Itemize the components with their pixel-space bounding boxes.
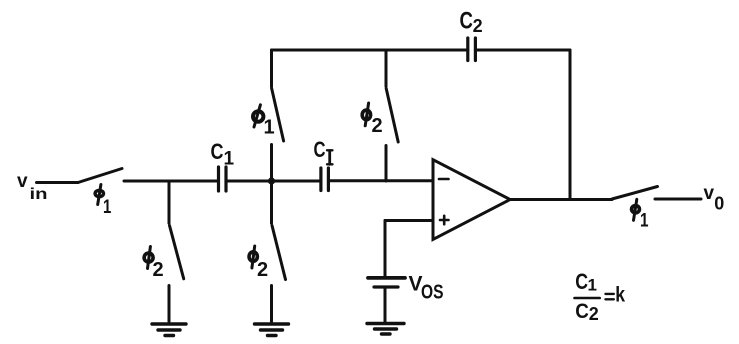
wire switch S6 to vo xyxy=(655,198,701,201)
wire switch S4 to top feedback wire xyxy=(270,50,273,87)
wire switch S5 to top feedback wire xyxy=(385,50,388,87)
node B junction dot xyxy=(268,177,275,184)
svg-text:C: C xyxy=(575,269,588,294)
formula equals sign xyxy=(606,294,614,299)
svg-text:1: 1 xyxy=(264,117,275,139)
svg-text:C: C xyxy=(460,7,473,34)
svg-text:2: 2 xyxy=(473,16,483,36)
svg-text:v: v xyxy=(704,183,715,204)
op-amp minus sign xyxy=(439,178,449,181)
svg-text:2: 2 xyxy=(589,304,599,324)
switch S5 phi2 arm xyxy=(386,88,398,142)
wire switch S2 to ground xyxy=(168,286,171,322)
switch S4 phi1 arm xyxy=(272,88,284,141)
wire op-amp output to switch S6 xyxy=(510,198,612,201)
wire node C up to switch S5 xyxy=(385,146,388,182)
voltage source VOS bottom plate xyxy=(374,285,398,288)
switch S1 phi1 arm xyxy=(78,169,122,183)
svg-text:2: 2 xyxy=(153,259,164,281)
ground G2 xyxy=(255,324,289,336)
svg-text:OS: OS xyxy=(421,282,444,304)
wire VOS to ground xyxy=(384,288,387,322)
phi2 label for S5 xyxy=(362,103,382,137)
svg-text:1: 1 xyxy=(588,276,597,295)
op-amp U1 xyxy=(433,160,510,240)
top feedback wire left of C2 xyxy=(272,49,468,52)
svg-text:in: in xyxy=(30,186,48,203)
C1 label xyxy=(211,139,235,170)
wire feedback down to output node xyxy=(569,50,572,200)
wire switch S1 to node A xyxy=(124,180,219,183)
phi2 label for S3 xyxy=(249,246,268,281)
svg-text:C: C xyxy=(575,300,589,323)
svg-text:0: 0 xyxy=(714,193,724,213)
phi1 label for S4 xyxy=(253,105,275,139)
phi2 label for S2 xyxy=(144,247,164,282)
wire C1 to CI through node B xyxy=(226,180,321,183)
node vin label xyxy=(17,171,48,203)
node vo label xyxy=(704,183,725,214)
phi1 label for S1 xyxy=(95,185,112,219)
capacitor C2 xyxy=(468,38,476,61)
formula fraction bar xyxy=(575,297,600,300)
svg-text:C: C xyxy=(314,137,326,162)
capacitor C1 xyxy=(219,167,227,191)
switch S3 phi2 arm xyxy=(272,226,286,280)
svg-text:C: C xyxy=(211,139,224,164)
svg-text:1: 1 xyxy=(640,211,649,232)
wire down to Vos source xyxy=(384,221,387,277)
svg-text:1: 1 xyxy=(224,149,235,170)
VOS label xyxy=(409,273,444,304)
svg-text:1: 1 xyxy=(103,197,112,218)
switch S2 phi2 arm xyxy=(170,226,184,279)
wire switch S3 to ground xyxy=(270,286,273,322)
op-amp plus sign xyxy=(440,216,449,224)
ground G1 xyxy=(152,324,186,336)
CI label xyxy=(314,137,333,164)
svg-text:2: 2 xyxy=(372,115,383,137)
wire non-inverting input xyxy=(385,219,433,222)
capacitor CI xyxy=(321,168,329,191)
C2 label xyxy=(460,7,483,36)
ground G3 xyxy=(367,324,404,335)
voltage source VOS top plate xyxy=(368,276,405,280)
svg-text:v: v xyxy=(17,171,28,192)
top feedback wire right of C2 xyxy=(475,49,570,52)
svg-text:2: 2 xyxy=(257,259,268,281)
wire node A down to switch S2 xyxy=(168,181,171,223)
wire vin to switch S1 xyxy=(37,181,79,184)
wire node B down to switch S3 xyxy=(270,181,273,223)
switch S6 phi1 arm xyxy=(612,187,658,200)
wire node B up to switch S4 xyxy=(270,145,273,182)
formula C1/C2 = k xyxy=(575,269,625,324)
svg-text:k: k xyxy=(615,283,625,306)
phi1 label for S6 xyxy=(632,199,649,231)
wire CI to op-amp inverting input xyxy=(328,179,433,182)
